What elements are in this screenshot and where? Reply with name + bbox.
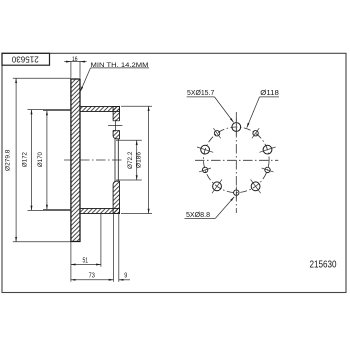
large bolt holes 5x15.7 bbox=[201, 123, 272, 191]
dimension 9 bbox=[119, 271, 130, 280]
dimension D172 bbox=[21, 110, 31, 211]
ext lines diameter dims left bbox=[13, 78, 71, 241]
svg-text:73: 73 bbox=[89, 271, 95, 280]
dimension D170 bbox=[37, 111, 47, 210]
mounting flange top section bbox=[112, 107, 120, 139]
svg-text:Ø118: Ø118 bbox=[260, 88, 279, 97]
border frame bbox=[2, 53, 346, 292]
note MIN TH. 14.2MM with leader bbox=[80, 62, 149, 91]
svg-text:215630: 215630 bbox=[310, 259, 337, 270]
svg-text:Ø279.8: Ø279.8 bbox=[4, 149, 11, 171]
wheel bolt hole lower right bbox=[251, 182, 260, 191]
rotor disc section (hatched) bbox=[71, 79, 80, 242]
bolt circle (dash-dot) bbox=[204, 127, 270, 193]
wheel bolt hole left bbox=[201, 145, 210, 154]
svg-text:5XØ8.8: 5XØ8.8 bbox=[186, 210, 210, 219]
svg-text:9: 9 bbox=[124, 271, 127, 280]
dimension D279.8 bbox=[4, 78, 16, 241]
svg-text:Ø72.2: Ø72.2 bbox=[127, 151, 134, 169]
large hole centermarks bbox=[197, 119, 276, 194]
small hole left bbox=[202, 167, 207, 172]
small hole right bbox=[265, 167, 270, 172]
dimension 73 bbox=[71, 271, 114, 280]
bolt hole centermark top bbox=[108, 120, 122, 132]
small hole upper right bbox=[253, 131, 258, 136]
small holes 5x8.8 bbox=[202, 131, 270, 196]
vertical centerline bbox=[235, 112, 237, 213]
svg-text:51: 51 bbox=[83, 255, 89, 264]
label D118 with leader bbox=[247, 88, 279, 127]
dimension D72.2 bbox=[127, 140, 137, 180]
small hole upper left bbox=[214, 131, 219, 136]
svg-text:Ø186: Ø186 bbox=[136, 152, 143, 168]
label 5xD8.8 with leader bbox=[185, 197, 235, 219]
label 5xD15.7 with leader bbox=[187, 88, 234, 122]
dimension D186 bbox=[136, 106, 149, 213]
ext lines right dims bbox=[116, 106, 152, 213]
wheel bolt hole top bbox=[232, 123, 241, 132]
svg-text:Ø170: Ø170 bbox=[37, 152, 44, 167]
section centerline bbox=[64, 159, 123, 161]
part number box top-left bbox=[2, 53, 50, 65]
svg-text:215630: 215630 bbox=[11, 54, 38, 63]
svg-text:5XØ15.7: 5XØ15.7 bbox=[187, 88, 214, 97]
wheel bolt hole right bbox=[263, 145, 272, 154]
small hole bottom bbox=[234, 190, 239, 195]
wheel bolt hole lower left bbox=[213, 182, 222, 191]
hub skirt bottom section bbox=[80, 209, 120, 214]
svg-text:Ø172: Ø172 bbox=[21, 152, 28, 167]
dimension 51 bbox=[71, 255, 101, 264]
ext lines bottom dims bbox=[71, 214, 119, 282]
horizontal centerline bbox=[195, 159, 278, 161]
mounting flange bottom section bbox=[113, 181, 119, 213]
small hole centermarks bbox=[199, 128, 273, 199]
hub skirt top section bbox=[80, 107, 120, 112]
dimension 16 top bbox=[64, 56, 87, 78]
centre bore lines bbox=[115, 139, 118, 181]
svg-text:16: 16 bbox=[72, 56, 78, 63]
